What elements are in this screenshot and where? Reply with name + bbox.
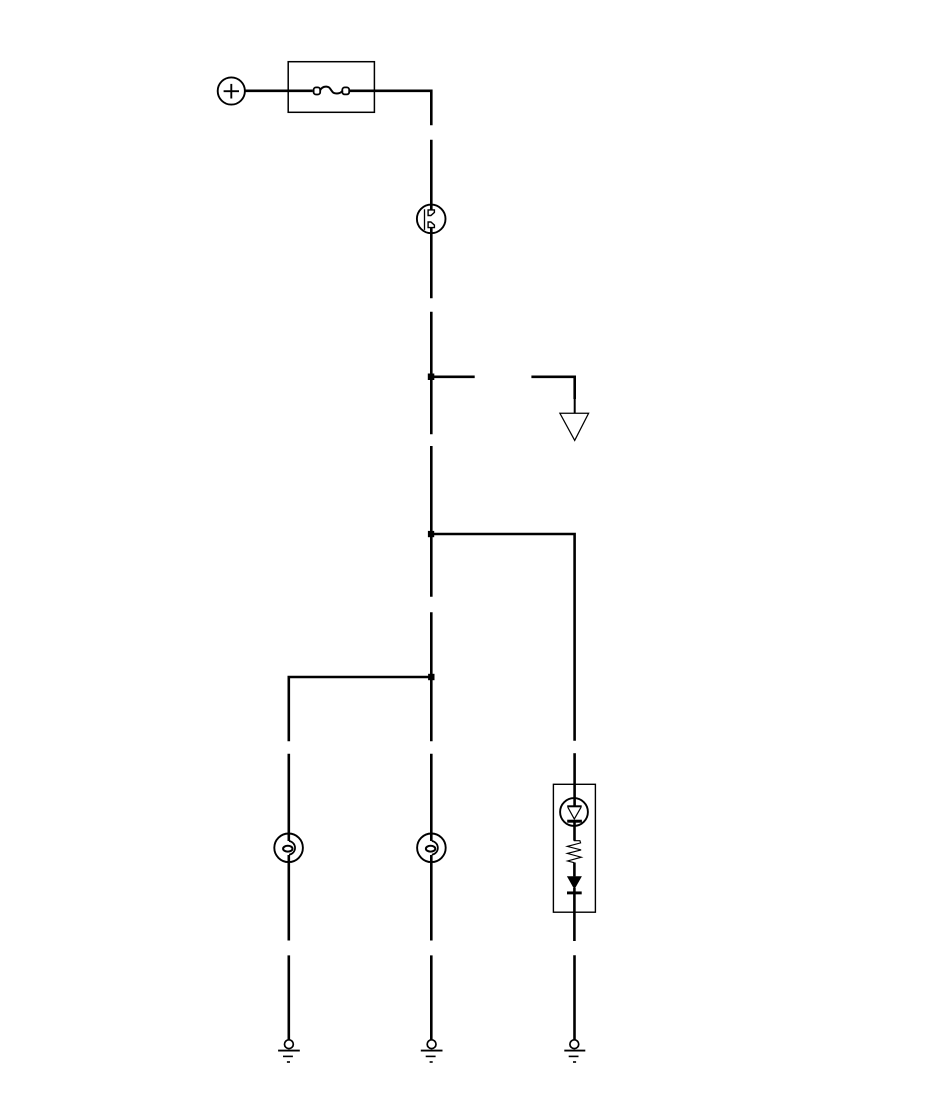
bulb L2 — [417, 834, 446, 863]
off-page connector arrow — [560, 413, 589, 440]
wire dash segment — [430, 446, 433, 597]
ground G3 — [564, 1040, 585, 1062]
wire branch C left — [289, 677, 433, 741]
connector C1 — [417, 205, 446, 234]
bulb L1 — [274, 834, 303, 863]
diode D1 — [567, 876, 582, 893]
wire dash segment right branch — [573, 753, 576, 805]
junction node A — [428, 374, 435, 381]
wire dash segment — [430, 312, 433, 435]
wire branch A right segment 2 with corner down — [531, 377, 574, 399]
fuse element — [314, 87, 350, 95]
wire dash segment — [430, 140, 433, 210]
fuse box — [288, 62, 374, 113]
wire dash segment — [573, 955, 576, 1040]
wire dash segment left branch — [287, 754, 290, 841]
wire fuse to corner and down — [349, 91, 431, 126]
wire LED to resistor — [573, 823, 576, 841]
indicator LED lamp — [560, 798, 588, 826]
indicator unit box — [553, 784, 595, 912]
ground G1 — [278, 1040, 300, 1062]
wire stub to arrow — [574, 398, 576, 413]
wire branch A right segment 1 — [434, 375, 475, 378]
wire branch B right to indicator — [433, 534, 575, 741]
resistor R1 — [567, 840, 581, 863]
wire mid branch below junction C — [430, 754, 433, 841]
junction node C — [428, 674, 434, 680]
wire below bulb L1 — [287, 855, 290, 941]
wire dash segment — [430, 955, 433, 1040]
ground G2 — [421, 1040, 443, 1062]
wire resistor to diode — [573, 863, 576, 877]
wire dash segment — [287, 955, 290, 1040]
wire below connector — [430, 228, 433, 299]
wire diode to below box — [573, 888, 576, 941]
wire battery to fuse — [245, 90, 313, 93]
battery positive terminal B+ — [218, 77, 245, 104]
wire below bulb L2 — [430, 855, 433, 941]
junction node B — [428, 531, 434, 537]
wire dash segment — [430, 612, 433, 741]
